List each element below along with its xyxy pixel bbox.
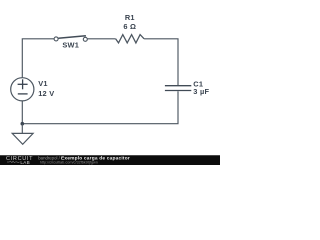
svg-text:3 µF: 3 µF bbox=[193, 87, 209, 96]
node junction dot bbox=[21, 122, 25, 126]
voltage source V1 bbox=[11, 78, 34, 101]
svg-text:R1: R1 bbox=[125, 13, 135, 22]
footer bar bbox=[0, 155, 220, 165]
capacitor C1 bbox=[165, 86, 191, 91]
wire resistor to top-right corner and down to capacitor bbox=[144, 39, 178, 85]
wire capacitor down to bottom-right corner bbox=[22, 91, 178, 124]
svg-text:SW1: SW1 bbox=[62, 41, 79, 50]
svg-text:http://circuitlab.com/c/32f6k9: http://circuitlab.com/c/32f6k9tjfgwn bbox=[40, 160, 98, 164]
resistor R1 bbox=[116, 35, 145, 43]
switch SW1 bbox=[54, 36, 87, 42]
wire switch to resistor bbox=[87, 38, 115, 40]
svg-text:LAB: LAB bbox=[20, 160, 30, 165]
svg-text:V1: V1 bbox=[38, 79, 48, 88]
svg-text:12 V: 12 V bbox=[38, 89, 54, 98]
wire V1 bottom to ground node bbox=[21, 101, 23, 124]
ground bbox=[12, 124, 33, 145]
svg-text:6 Ω: 6 Ω bbox=[123, 22, 136, 31]
CircuitLab logo bbox=[6, 156, 33, 165]
wire top-left from corner to switch bbox=[22, 39, 54, 78]
